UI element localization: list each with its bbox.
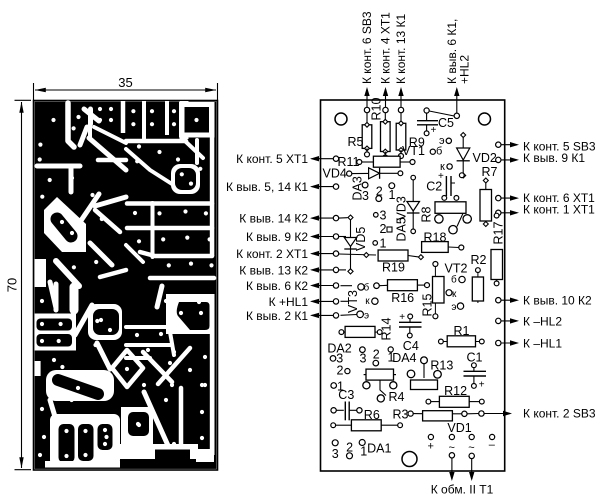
svg-text:б: б bbox=[364, 282, 370, 294]
svg-text:К конт. 5 XT1: К конт. 5 XT1 bbox=[236, 152, 308, 166]
svg-text:R14: R14 bbox=[380, 318, 394, 341]
svg-text:э: э bbox=[451, 302, 456, 313]
svg-text:VT2: VT2 bbox=[445, 262, 468, 276]
svg-text:R7: R7 bbox=[482, 165, 498, 179]
svg-text:К выв. 9 К2: К выв. 9 К2 bbox=[246, 230, 308, 244]
svg-text:2: 2 bbox=[376, 184, 383, 198]
svg-text:R4: R4 bbox=[389, 390, 405, 404]
svg-text:C2: C2 bbox=[426, 180, 442, 194]
svg-text:б: б bbox=[451, 274, 457, 286]
svg-text:К выв. 10 К2: К выв. 10 К2 bbox=[523, 294, 592, 308]
svg-text:C3: C3 bbox=[338, 388, 354, 402]
svg-text:R17: R17 bbox=[492, 222, 506, 245]
svg-text:3: 3 bbox=[380, 209, 387, 223]
svg-text:R2: R2 bbox=[471, 253, 487, 267]
svg-text:К выв. 13 К2: К выв. 13 К2 bbox=[239, 263, 308, 277]
svg-text:~: ~ bbox=[449, 442, 455, 454]
svg-text:К –HL2: К –HL2 bbox=[523, 314, 562, 328]
svg-text:R13: R13 bbox=[430, 359, 453, 373]
svg-text:R16: R16 bbox=[391, 291, 414, 305]
svg-text:3: 3 bbox=[332, 447, 339, 461]
svg-text:VD2: VD2 bbox=[473, 151, 497, 165]
svg-text:К выв. 14 К2: К выв. 14 К2 bbox=[239, 212, 308, 226]
svg-text:VD3: VD3 bbox=[395, 196, 409, 220]
svg-text:35: 35 bbox=[118, 75, 132, 90]
svg-text:2: 2 bbox=[373, 348, 380, 362]
svg-text:К +HL1: К +HL1 bbox=[269, 295, 309, 309]
svg-text:R3: R3 bbox=[393, 408, 409, 422]
svg-text:К конт. 1 XT1: К конт. 1 XT1 bbox=[523, 203, 595, 217]
svg-text:К выв. 2 К1: К выв. 2 К1 bbox=[246, 309, 308, 323]
svg-text:К конт. 2 XT1: К конт. 2 XT1 bbox=[236, 247, 308, 261]
svg-text:к: к bbox=[452, 289, 457, 300]
svg-text:R18: R18 bbox=[424, 231, 447, 245]
svg-text:R10: R10 bbox=[370, 98, 384, 121]
svg-text:К выв. 6 К2: К выв. 6 К2 bbox=[246, 279, 308, 293]
svg-text:2: 2 bbox=[380, 222, 387, 236]
svg-text:R15: R15 bbox=[421, 294, 435, 317]
svg-text:К –HL1: К –HL1 bbox=[523, 336, 562, 350]
svg-text:К конт. 4 XT1: К конт. 4 XT1 bbox=[379, 12, 393, 84]
svg-text:2: 2 bbox=[346, 441, 353, 455]
svg-text:VT1: VT1 bbox=[402, 144, 425, 158]
svg-text:R19: R19 bbox=[382, 260, 405, 274]
svg-text:К выв. 5, 14 К1: К выв. 5, 14 К1 bbox=[226, 180, 308, 194]
svg-text:К выв. 9 К1: К выв. 9 К1 bbox=[523, 151, 585, 165]
svg-text:+: + bbox=[428, 441, 434, 453]
svg-text:R5: R5 bbox=[348, 135, 364, 149]
svg-text:–: – bbox=[489, 439, 496, 451]
svg-text:VT3: VT3 bbox=[346, 290, 360, 313]
svg-text:1: 1 bbox=[380, 237, 387, 251]
svg-text:+: + bbox=[399, 312, 405, 323]
svg-text:3: 3 bbox=[362, 189, 369, 203]
svg-text:+: + bbox=[479, 380, 485, 391]
svg-text:VD4: VD4 bbox=[323, 167, 347, 181]
svg-text:К конт. 6 SB3: К конт. 6 SB3 bbox=[360, 11, 374, 84]
svg-text:3: 3 bbox=[360, 351, 367, 365]
svg-text:R8: R8 bbox=[420, 206, 434, 222]
svg-text:VD5: VD5 bbox=[354, 227, 368, 251]
svg-text:к: к bbox=[365, 296, 370, 307]
svg-text:~: ~ bbox=[468, 442, 474, 454]
svg-text:э: э bbox=[364, 310, 369, 321]
svg-text:б: б bbox=[436, 146, 442, 158]
svg-text:DA1: DA1 bbox=[367, 442, 391, 456]
svg-text:К конт. 2 SB3: К конт. 2 SB3 bbox=[523, 407, 596, 421]
svg-text:К обм. II Т1: К обм. II Т1 bbox=[431, 483, 494, 497]
svg-text:DA4: DA4 bbox=[392, 351, 416, 365]
svg-text:VD1: VD1 bbox=[447, 421, 471, 435]
svg-text:+HL2: +HL2 bbox=[457, 55, 471, 84]
svg-text:70: 70 bbox=[5, 278, 20, 292]
svg-text:+: + bbox=[431, 125, 437, 136]
svg-text:C5: C5 bbox=[438, 116, 454, 130]
svg-text:2: 2 bbox=[337, 364, 344, 378]
svg-text:К конт. 13 К1: К конт. 13 К1 bbox=[394, 13, 408, 84]
